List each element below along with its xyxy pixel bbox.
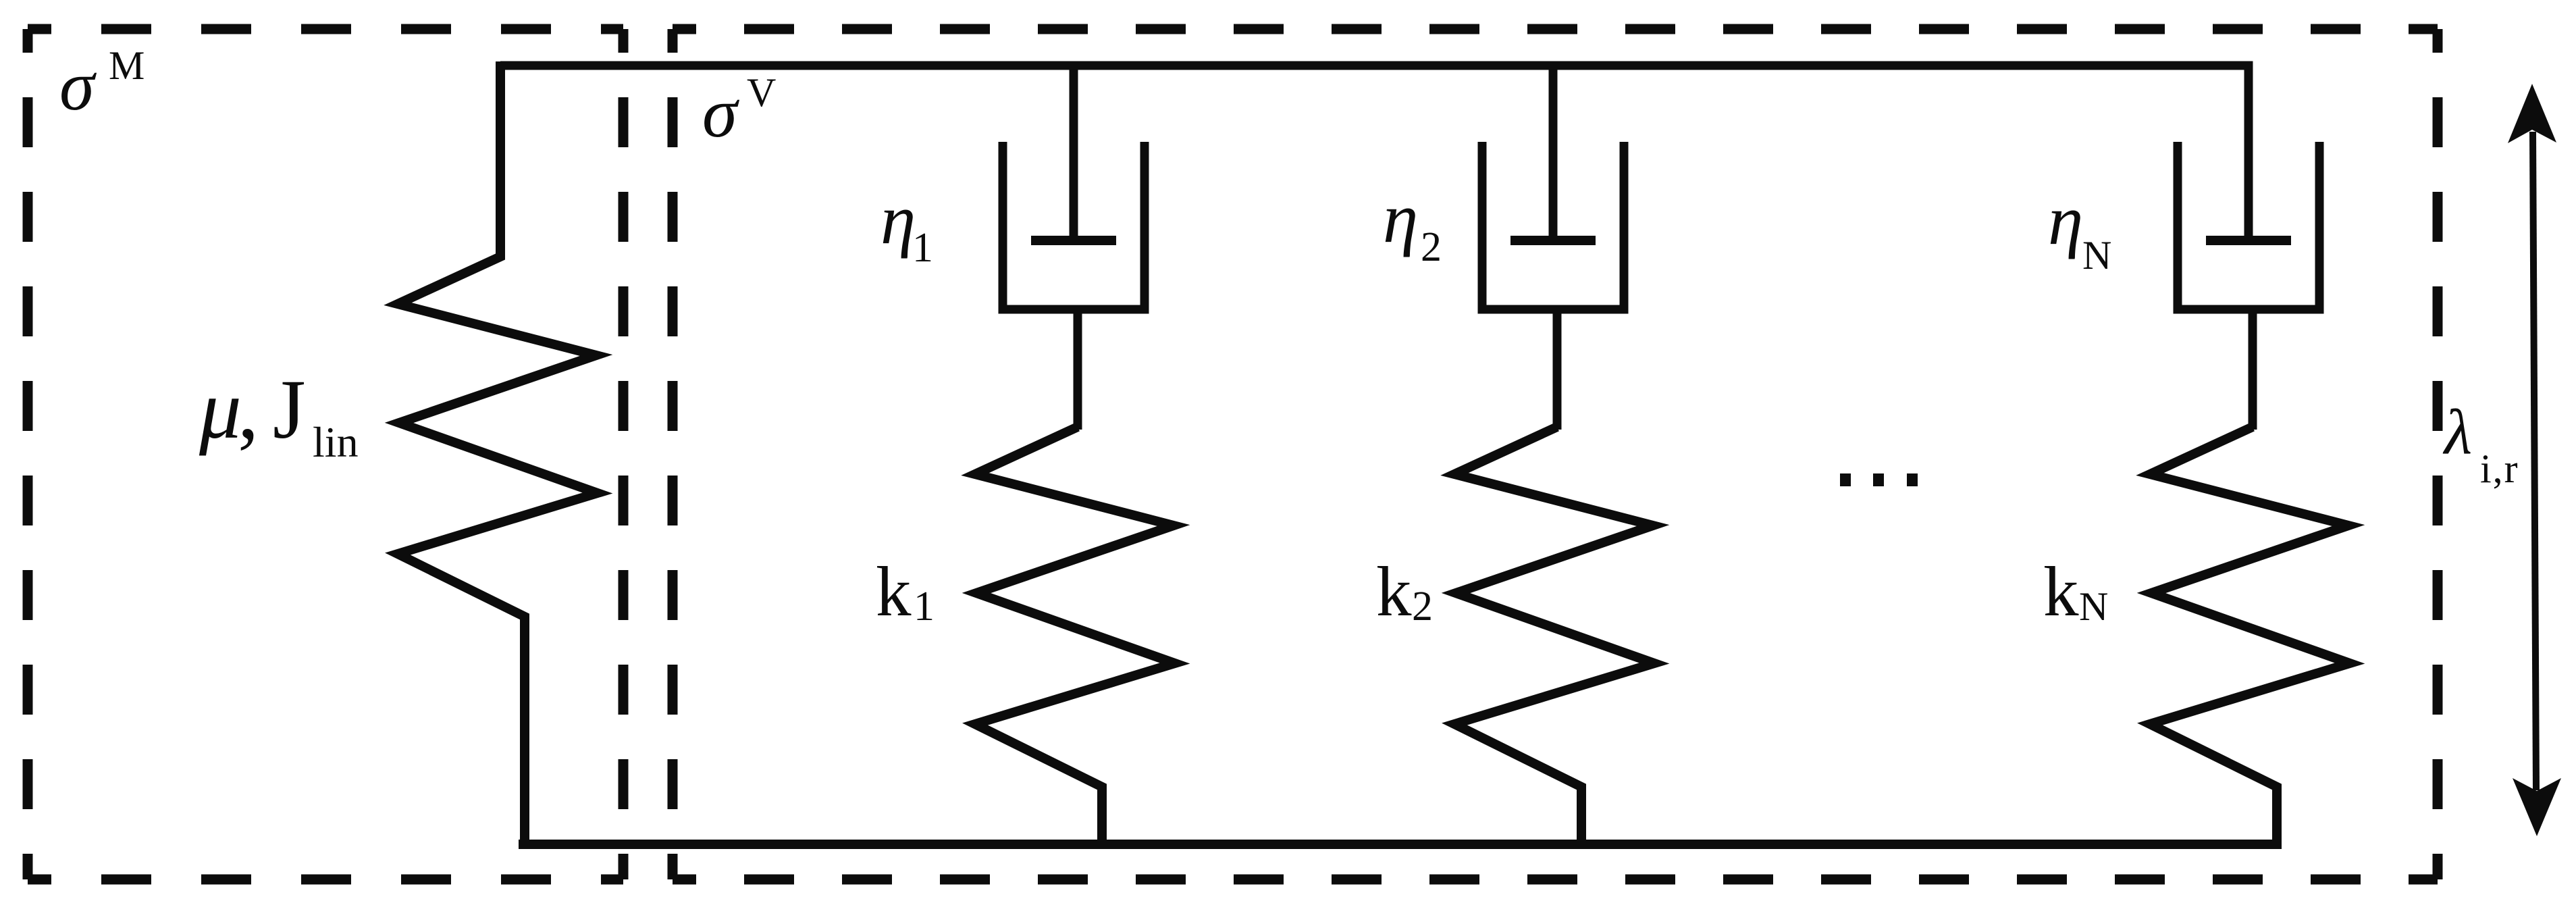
svg-text:k: k <box>876 552 912 631</box>
dashed box sigma-M (matrix branch enclosure) <box>28 29 623 879</box>
wire: etaN to kN lead <box>2249 309 2257 430</box>
dashpot eta2: piston rod <box>1549 66 1558 236</box>
spring k2 <box>1454 427 1654 848</box>
svg-text:μ: μ <box>199 363 242 457</box>
spring k1 <box>975 427 1175 848</box>
dashpot etaN: piston plate <box>2206 236 2291 245</box>
svg-text:η: η <box>2048 180 2083 259</box>
svg-text:η: η <box>880 180 916 259</box>
svg-text:2: 2 <box>1421 224 1442 270</box>
svg-text:J: J <box>273 363 306 457</box>
svg-text:,: , <box>238 363 259 457</box>
svg-text:σ: σ <box>702 73 740 152</box>
dashpot eta2: piston plate <box>1510 236 1596 245</box>
svg-text:2: 2 <box>1412 584 1433 630</box>
stretch arrow: bottom barbed head <box>2513 778 2561 836</box>
wire: top bus with right-end drop into eta-N rod <box>500 66 2249 236</box>
wire: eta1 to k1 lead <box>1074 309 1082 430</box>
svg-text:λ: λ <box>2442 396 2472 468</box>
spring kN <box>2150 427 2350 848</box>
svg-text:1: 1 <box>912 225 933 271</box>
svg-text:lin: lin <box>313 418 359 466</box>
svg-text:N: N <box>2082 233 2111 278</box>
svg-text:k: k <box>2043 552 2079 631</box>
dashed box sigma-V (viscous branches enclosure) <box>673 29 2438 879</box>
svg-text:k: k <box>1376 552 1412 631</box>
svg-text:σ: σ <box>59 46 97 125</box>
dashpot eta1: cylinder cup <box>1003 142 1145 309</box>
svg-text:η: η <box>1383 178 1418 257</box>
stretch arrow: top barbed head <box>2508 84 2556 143</box>
wire: bottom bus <box>519 840 2282 849</box>
ellipsis dots between branch 2 and branch N <box>1840 473 1851 486</box>
spring mu,Jlin (equilibrium branch) <box>398 61 598 848</box>
wire: eta2 to k2 lead <box>1553 309 1562 430</box>
dashpot etaN: cylinder cup <box>2178 142 2319 309</box>
dashpot eta2: cylinder cup <box>1482 142 1624 309</box>
svg-text:M: M <box>109 43 144 88</box>
dashpot eta1: piston rod <box>1070 66 1078 236</box>
svg-text:1: 1 <box>914 584 935 630</box>
svg-text:V: V <box>747 70 776 115</box>
dashpot eta1: piston plate <box>1031 236 1116 245</box>
stretch arrow lambda i,r : shaft <box>2533 132 2536 790</box>
svg-text:N: N <box>2079 584 2108 629</box>
svg-text:i,r: i,r <box>2480 446 2519 491</box>
